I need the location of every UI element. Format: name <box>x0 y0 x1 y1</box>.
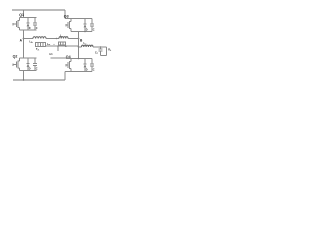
capacitor C2 (Q2 snubber) <box>33 58 38 71</box>
inductor Llk <box>30 37 46 44</box>
transformer winding primary <box>36 43 46 52</box>
wire Q4 bottom rail <box>65 71 92 73</box>
wire Q2 bottom rail <box>20 70 37 72</box>
inductor Lo <box>82 41 94 47</box>
wire Q2 source to bus <box>23 71 25 81</box>
resistor RL <box>107 47 113 56</box>
wire Q2 top rail <box>20 57 37 59</box>
transistor Q1 <box>13 13 24 30</box>
wire Q1 top rail <box>20 17 37 19</box>
wire right-leg top drop <box>64 10 66 19</box>
svg-text:D: D <box>29 27 31 30</box>
wire output bottom rail <box>101 55 107 57</box>
wire Q1 bottom rail <box>20 29 37 31</box>
svg-text:RL: RL <box>108 49 112 52</box>
svg-text:A: A <box>20 38 23 42</box>
wire Lr to node B <box>68 38 79 40</box>
inductor Lr <box>59 34 68 39</box>
wire stub down <box>57 46 59 51</box>
diode D4 (Q4 antiparallel) <box>84 59 88 72</box>
svg-text:D: D <box>86 68 88 71</box>
svg-text:C: C <box>93 28 95 31</box>
wire Q4 top rail <box>66 58 92 60</box>
transistor Q4 <box>66 59 71 72</box>
wire secondary bottom rail <box>51 57 67 59</box>
wire bottom bus <box>13 79 65 81</box>
svg-text:Co: Co <box>95 51 99 54</box>
diode D3 (Q3 antiparallel) <box>84 19 88 32</box>
svg-text:C: C <box>93 68 95 71</box>
transistor Q2 <box>13 58 20 71</box>
svg-text:C: C <box>36 27 38 30</box>
wire top bus <box>12 9 65 11</box>
svg-text:Lm: Lm <box>47 43 50 46</box>
wire Llk to Lr <box>46 38 59 40</box>
node on secondary row <box>57 45 59 47</box>
svg-text:C: C <box>36 68 38 71</box>
node secondary right <box>65 45 67 47</box>
diode D1 (Q1 antiparallel) <box>27 18 31 31</box>
svg-text:Q2: Q2 <box>13 54 18 58</box>
wire tap to Lo <box>79 46 82 48</box>
wire right-leg bottom rise <box>64 72 66 81</box>
transformer winding secondary <box>59 42 66 45</box>
wire Q1 feed <box>23 10 25 18</box>
node Q3 diode junction <box>84 31 86 33</box>
wire Q3 top rail <box>65 18 92 20</box>
wire node A to Llk <box>24 38 34 40</box>
transistor Q3 <box>66 19 71 32</box>
node Q4 drain junction <box>78 58 80 60</box>
node output tap <box>78 46 80 48</box>
wire left leg middle <box>23 30 25 58</box>
wire secondary row <box>46 45 79 47</box>
capacitor C1 (Q1 snubber) <box>33 18 38 31</box>
node A <box>23 38 25 40</box>
capacitor Co <box>95 47 103 56</box>
svg-text:D: D <box>29 68 31 71</box>
diode D2 (Q2 antiparallel) <box>27 58 31 71</box>
node B <box>78 38 80 40</box>
svg-text:n:1: n:1 <box>49 53 53 56</box>
capacitor C4 (Q4 snubber) <box>90 59 95 72</box>
svg-text:Tr1: Tr1 <box>36 48 39 51</box>
svg-text:Llk: Llk <box>30 40 34 44</box>
svg-text:D: D <box>86 28 88 31</box>
wire Lo to output node <box>93 46 107 48</box>
svg-text:Q1: Q1 <box>19 13 24 17</box>
wire right leg middle <box>78 32 80 59</box>
capacitor C3 (Q3 snubber) <box>90 19 95 32</box>
node output cap junction <box>100 46 102 48</box>
node on bottom bus <box>23 79 25 81</box>
wire Q3 bottom rail <box>71 31 92 33</box>
